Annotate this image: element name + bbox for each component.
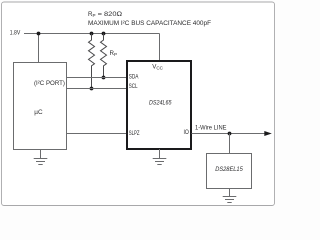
resistor Rp left (to SCL) (89, 34, 95, 89)
svg-text:SLPZ: SLPZ (129, 130, 140, 137)
svg-text:RP = 820Ω: RP = 820Ω (88, 11, 122, 18)
junction dot R2 to SDA (102, 76, 106, 80)
ground below DS24L65 (153, 149, 167, 165)
wire drop to DS28EL15 (229, 134, 231, 154)
svg-text:µC: µC (34, 109, 43, 116)
slave DS28EL15 box (207, 154, 252, 189)
svg-text:SCL: SCL (129, 83, 138, 90)
svg-text:MAXIMUM I²C BUS CAPACITANCE 40: MAXIMUM I²C BUS CAPACITANCE 400pF (88, 20, 211, 27)
junction dot at resistor R1 top (90, 32, 94, 36)
wire SLPZ (67, 133, 128, 135)
wire drop to uC box (38, 34, 40, 64)
svg-text:DS28EL15: DS28EL15 (215, 166, 243, 173)
wire IO 1-Wire line (192, 133, 266, 135)
ground below DS28EL15 (223, 189, 237, 203)
ground below uC (34, 149, 48, 165)
junction dot at resistor R2 top (102, 32, 106, 36)
microcontroller U2 box (14, 63, 67, 150)
wire VCC drop into DS24L65 (159, 34, 161, 62)
junction dot at uC supply tap (37, 32, 41, 36)
svg-text:RP: RP (110, 50, 118, 57)
svg-text:DS24L65: DS24L65 (149, 99, 172, 106)
border frame (2, 2, 275, 206)
svg-text:1-Wire LINE: 1-Wire LINE (195, 124, 227, 131)
wire 1.8V supply rail (24, 33, 160, 35)
label Rp = 820 ohms (88, 11, 122, 18)
resistor Rp right (to SDA) (101, 34, 107, 78)
junction dot R1 to SCL (90, 87, 94, 91)
wire SDA (67, 77, 128, 79)
wire SCL (67, 88, 128, 90)
junction dot on 1-Wire line (228, 132, 232, 136)
svg-text:SDA: SDA (129, 73, 139, 80)
svg-text:1.8V: 1.8V (10, 29, 21, 36)
svg-text:(I²C PORT): (I²C PORT) (34, 81, 65, 87)
svg-text:IO: IO (184, 129, 190, 136)
svg-text:VCC: VCC (152, 63, 163, 70)
arrow head on 1-Wire line (264, 131, 272, 136)
op DS24L65 chip U1 box (127, 61, 191, 149)
